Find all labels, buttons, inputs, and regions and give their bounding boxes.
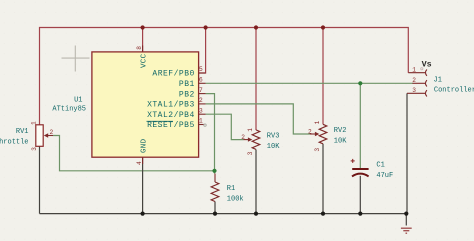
svg-text:XTAL2/PB4: XTAL2/PB4 [147,111,195,120]
svg-text:3: 3 [31,147,38,151]
U1 pin stubs [143,46,206,165]
capacitor C1 (polarized) [352,169,369,176]
svg-text:GND: GND [140,138,148,153]
svg-text:3: 3 [314,148,321,152]
cursor crosshair [62,46,90,72]
svg-text:PB1: PB1 [179,80,195,89]
wire GND bottom bus [40,213,407,215]
svg-text:RV3: RV3 [267,133,280,141]
svg-text:10K: 10K [267,143,280,151]
potentiometer RV3 [252,130,260,150]
wire RV1 pin 3 to GND bus [39,147,41,214]
wire RV1 wiper to throttle node [53,136,215,171]
wire R1 bottom to GND bus [214,202,216,214]
svg-text:10K: 10K [334,138,347,146]
junction GND/C1 [358,212,362,216]
RV1 wiper arrow [48,135,54,137]
junction GND/J1 [404,212,408,216]
wire Vs bus (top rail, left drop to RV1, right drop to J1 pin 1) [40,28,409,127]
wire PB1 to J1 pin 2 [206,82,413,84]
svg-text:XTAL1/PB3: XTAL1/PB3 [147,101,195,110]
svg-text:8: 8 [136,46,143,50]
svg-text:RESET/PB5: RESET/PB5 [147,121,195,130]
svg-text:Throttle: Throttle [0,138,29,146]
svg-text:ATtiny85: ATtiny85 [52,106,86,114]
junction PB2/RV1 wiper/R1 [212,169,216,173]
svg-text:1: 1 [412,66,416,73]
svg-text:2: 2 [308,129,312,136]
svg-text:U1: U1 [74,97,82,105]
junction Vs/VCC [141,25,145,29]
potentiometer RV2 [319,124,327,144]
svg-text:7: 7 [199,87,203,94]
wire XTAL1/PB3 to RV2 wiper [206,104,310,134]
svg-text:2: 2 [199,97,203,104]
wire Vs to RV2 pin 1 [322,28,324,125]
svg-text:Vs: Vs [422,59,432,69]
svg-text:1: 1 [247,128,254,132]
RV2 wiper arrow [310,133,316,135]
svg-text:J1: J1 [434,76,442,84]
wire GND bus to ground symbol [405,214,407,226]
R1 top pin stub [214,174,216,183]
svg-text:AREF/PB0: AREF/PB0 [152,70,194,79]
ground [401,228,412,233]
wire U1 GND pin 4 to GND bus [142,157,144,214]
wire J1 pin 3 to GND bus [406,93,408,213]
resistor R1 [211,182,219,202]
svg-text:4: 4 [136,161,143,165]
junction Vs/AREF [204,25,208,29]
wire PB1 node down to C1 positive plate [359,83,361,168]
connector J1 pin stubs and sockets [407,70,427,97]
Vs label anchor circle [421,68,423,70]
svg-text:47uF: 47uF [376,172,393,180]
wire throttle node to R1 top [214,171,216,174]
wire RV2 pin 3 to GND bus [322,144,324,214]
junction GND/RV3 [254,212,258,216]
wire RV3 pin 3 to GND bus [255,150,257,214]
svg-text:Controller: Controller [434,87,474,95]
IC U1 ATtiny85 body [92,52,199,157]
wire Vs to RV3 pin 1 [255,28,257,131]
svg-text:2: 2 [412,77,416,84]
svg-text:VCC: VCC [140,53,148,68]
junction PB1/C1 [358,81,362,85]
junction GND/U1 [141,212,145,216]
wire PB2 down to throttle node [206,94,215,171]
junction GND/R1 [213,212,217,216]
U1 pin 1 open-end circle [204,124,206,126]
svg-text:PB2: PB2 [179,90,195,99]
potentiometer RV1 body [36,125,43,147]
svg-text:3: 3 [199,107,203,114]
RV3 wiper arrow [244,139,249,141]
svg-text:1: 1 [314,120,321,124]
svg-text:1: 1 [199,118,203,125]
wire C1 negative plate to GND bus [359,176,361,214]
wire XTAL2/PB4 to RV3 wiper [206,114,244,139]
svg-text:RV2: RV2 [334,127,347,135]
svg-text:5: 5 [199,66,203,73]
wire Vs to U1 VCC pin 8 [142,28,144,53]
junction GND/RV2 [321,212,325,216]
svg-text:R1: R1 [227,185,235,193]
svg-text:1: 1 [31,121,38,125]
junction Vs/RV3 [254,25,258,29]
svg-text:C1: C1 [376,162,384,170]
svg-text:2: 2 [241,134,245,141]
svg-text:100k: 100k [227,195,244,203]
junction Vs/RV2 [321,25,325,29]
svg-text:3: 3 [412,87,416,94]
wire Vs to U1 AREF pin 5 [199,28,206,74]
C1 plus sign [351,159,355,163]
svg-text:RV1: RV1 [16,128,29,136]
svg-text:2: 2 [50,129,54,136]
svg-text:6: 6 [199,77,203,84]
svg-text:3: 3 [247,151,254,155]
